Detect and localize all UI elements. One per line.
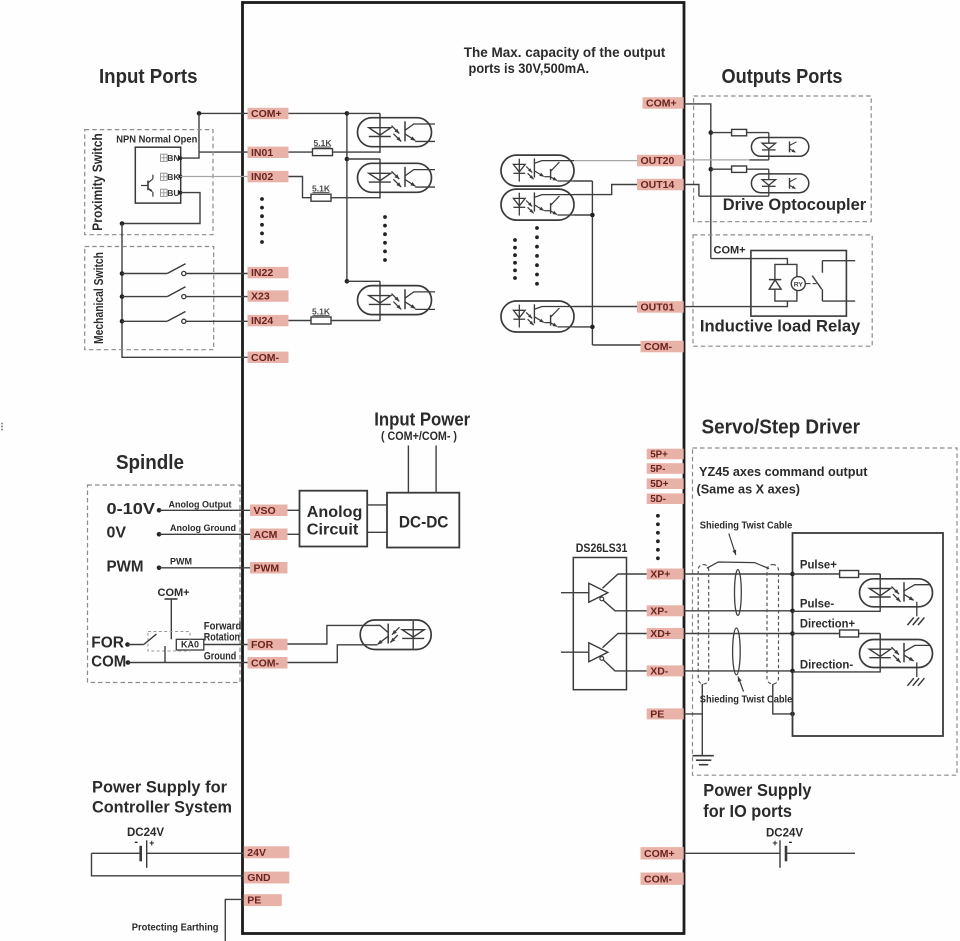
- wire Direction-: [793, 671, 881, 673]
- port FOR: [248, 639, 288, 651]
- wire R3 to opto3 cathode: [331, 320, 380, 322]
- ellipsis dots inputs: [260, 197, 264, 201]
- resistor RD1: [732, 129, 747, 135]
- mechanical switch dashed box: [85, 247, 214, 350]
- port XD+: [647, 628, 684, 639]
- pin BK: [178, 175, 182, 179]
- wire BU to common rail: [122, 193, 200, 224]
- wire IN01 to R1: [289, 151, 313, 153]
- svg-text:COM-: COM-: [644, 341, 672, 353]
- opto LED: [869, 649, 890, 656]
- wire common rail: [121, 224, 123, 359]
- port PWM: [250, 562, 288, 574]
- wire Direction+ to R5: [793, 633, 840, 635]
- svg-text:COM+: COM+: [158, 587, 190, 599]
- junction: [126, 660, 131, 665]
- mechanical switch: [120, 294, 125, 299]
- opto phototransistor: [903, 582, 905, 601]
- ellipsis dots outputs: [513, 238, 517, 242]
- wire shield2 to driver: [773, 684, 793, 714]
- svg-text:XD-: XD-: [650, 665, 669, 677]
- optocoupler body: [501, 301, 574, 332]
- svg-text:PWM: PWM: [254, 562, 280, 574]
- wire RD1 to LED: [747, 132, 769, 134]
- wire COM+ to KA0: [170, 599, 172, 639]
- svg-text:5P+: 5P+: [650, 449, 668, 460]
- svg-text:Ground: Ground: [204, 651, 237, 663]
- svg-text:Drive Optocoupler: Drive Optocoupler: [723, 195, 867, 214]
- wire VSO: [159, 509, 250, 511]
- relay contact: [821, 261, 823, 273]
- svg-text:IN02: IN02: [251, 171, 273, 183]
- svg-text:BK: BK: [167, 172, 180, 182]
- port IN02: [248, 171, 289, 182]
- svg-text:+: +: [772, 838, 777, 848]
- port VSO: [250, 505, 288, 517]
- wire rail to RD2: [711, 168, 732, 170]
- cable shield tube 1: [698, 565, 709, 685]
- wire opto4 collector to OUT20: [574, 160, 643, 162]
- earth ground PE: [693, 755, 714, 757]
- wire COM+ to battery: [684, 852, 780, 854]
- svg-text:COM+: COM+: [646, 98, 677, 110]
- switch FOR: [128, 644, 144, 646]
- svg-text:Anolog: Anolog: [307, 504, 363, 521]
- mechanical switch: [120, 271, 125, 276]
- scan artifact dots: [1, 423, 3, 425]
- svg-text:Power Supply: Power Supply: [703, 780, 811, 800]
- port ACM: [250, 529, 288, 541]
- wire FOR to opto collector: [288, 625, 381, 644]
- port X23: [248, 290, 289, 301]
- battery B1 DC24V: [139, 846, 142, 862]
- wire opto1 anode: [347, 112, 380, 114]
- opto phototransistor: [404, 289, 406, 309]
- wire COM- rail: [591, 181, 593, 345]
- wire RY to contact: [806, 283, 811, 285]
- relay box: [751, 251, 847, 317]
- proximity switch dashed box: [85, 130, 213, 235]
- port COM- out: [641, 341, 684, 353]
- NPN sensor box: [135, 147, 180, 203]
- wire ACM to Anolog Circuit: [288, 533, 300, 535]
- resistor R4: [840, 571, 859, 578]
- wire buffer A out+: [603, 574, 647, 588]
- opto LED: [369, 296, 391, 303]
- svg-text:DC24V: DC24V: [127, 827, 164, 839]
- port XP-: [647, 605, 684, 616]
- port 5D+: [647, 478, 684, 489]
- optocoupler body: [360, 620, 431, 650]
- wire opto4 emitter to COM- rail: [574, 180, 592, 182]
- port COM-: [248, 352, 289, 363]
- junction: [157, 508, 162, 513]
- transistor Q-NPN: [147, 181, 149, 191]
- wire LED2 cathode: [699, 195, 769, 197]
- svg-text:0V: 0V: [107, 525, 127, 542]
- wire buffer B out+: [603, 634, 647, 648]
- svg-text:YZ45 axes command output: YZ45 axes command output: [699, 464, 868, 479]
- opto light arrows: [392, 171, 400, 179]
- wire rail to COM-: [592, 344, 640, 346]
- junction: [345, 157, 350, 162]
- opto light arrows: [526, 201, 532, 207]
- svg-text:( COM+/COM- ): ( COM+/COM- ): [381, 431, 457, 443]
- svg-text:Power Supply for: Power Supply for: [92, 777, 227, 796]
- wire opto5 collector to OUT14: [574, 185, 643, 195]
- port OUT01: [637, 301, 684, 313]
- svg-text:PWM: PWM: [170, 557, 192, 567]
- wire IN02 to R2: [289, 177, 312, 198]
- wire RD2 to LED: [747, 168, 769, 170]
- wire PE: [684, 713, 703, 715]
- earth ground: [907, 678, 913, 686]
- svg-text:0-10V: 0-10V: [107, 501, 156, 518]
- port GND: [244, 872, 289, 884]
- shield roof: [707, 562, 769, 569]
- drive optocoupler dashed box: [694, 96, 872, 222]
- svg-text:IN22: IN22: [251, 267, 273, 279]
- opto LED: [869, 589, 890, 596]
- block Anolog Circuit: [300, 491, 368, 547]
- port COM+: [248, 108, 289, 119]
- svg-text:+: +: [149, 838, 154, 848]
- opto phototransistor: [404, 121, 406, 141]
- port 5P+: [647, 449, 684, 460]
- svg-text:24V: 24V: [247, 847, 266, 859]
- controller board outline: [243, 3, 685, 934]
- wire COM+ to rail: [289, 112, 347, 114]
- svg-text:Input Power: Input Power: [374, 410, 470, 430]
- svg-text:PE: PE: [247, 895, 261, 907]
- svg-text:PE: PE: [650, 708, 664, 720]
- svg-text:for IO ports: for IO ports: [703, 801, 792, 821]
- svg-text:X23: X23: [251, 291, 270, 303]
- junction: [197, 111, 202, 116]
- opto D1 phototransistor: [789, 142, 791, 153]
- wire opto6 emitter: [574, 326, 592, 328]
- ellipsis dots optos: [383, 215, 387, 219]
- wire contact terminal bottom: [822, 300, 855, 302]
- junction: [125, 642, 130, 647]
- svg-text:COM: COM: [91, 653, 126, 670]
- port PE bottom: [244, 894, 282, 906]
- svg-text:RY: RY: [794, 281, 804, 288]
- opto D1 drive LED: [751, 138, 808, 157]
- wire VSO to Anolog Circuit: [288, 509, 300, 511]
- wire contact terminal top: [822, 260, 855, 262]
- port OUT14: [637, 179, 684, 191]
- svg-text:Pulse-: Pulse-: [800, 596, 834, 610]
- resistor R5: [840, 630, 859, 637]
- svg-text:Shieding Twist Cable: Shieding Twist Cable: [700, 521, 793, 532]
- wire COM+ to external rail: [684, 104, 711, 259]
- earth ground: [907, 618, 913, 626]
- wire Pulse+ to R4: [793, 573, 840, 575]
- svg-text:COM-: COM-: [251, 657, 279, 669]
- svg-text:5D-: 5D-: [650, 494, 666, 505]
- wire COM+ vertical rail: [346, 113, 348, 281]
- pin BN: [178, 156, 182, 160]
- opto darlington pair: [533, 192, 535, 211]
- svg-text:Direction-: Direction-: [800, 658, 853, 672]
- svg-text:OUT20: OUT20: [641, 155, 675, 167]
- svg-text:IN24: IN24: [251, 315, 273, 327]
- svg-text:GND: GND: [247, 872, 271, 884]
- node COM+ wire: [199, 112, 248, 114]
- optocoupler body: [860, 640, 933, 668]
- port 5P-: [647, 463, 684, 474]
- port IN01: [248, 147, 289, 158]
- svg-text:DC-DC: DC-DC: [399, 514, 449, 532]
- junction: [120, 221, 125, 226]
- svg-text:PWM: PWM: [107, 559, 144, 576]
- opto phototransistor: [387, 624, 389, 644]
- resistor RD2: [732, 166, 747, 172]
- optocoupler body: [358, 163, 432, 192]
- buffer A: [561, 592, 589, 594]
- wire R5 to opto: [859, 633, 881, 635]
- wire input power +: [407, 446, 409, 493]
- svg-text:BU: BU: [167, 188, 179, 198]
- block DC-DC: [387, 493, 459, 548]
- wire XD- to driver: [684, 670, 793, 672]
- svg-text:Shieding Twist Cable: Shieding Twist Cable: [700, 695, 793, 706]
- svg-text:Direction+: Direction+: [800, 616, 855, 630]
- opto light arrows: [392, 627, 400, 635]
- optocoupler body: [860, 579, 933, 607]
- inductive load relay dashed box: [693, 235, 872, 346]
- svg-text:ports is 30V,500mA.: ports is 30V,500mA.: [469, 60, 590, 76]
- arrow to cable bottom: [738, 677, 744, 692]
- diode D flyback: [769, 279, 781, 281]
- svg-text:Servo/Step Driver: Servo/Step Driver: [702, 417, 861, 439]
- port PE: [647, 708, 684, 719]
- optocoupler body: [358, 118, 432, 147]
- opto darlington pair: [533, 304, 535, 323]
- wire rail to RD1: [711, 132, 732, 134]
- opto LED: [513, 310, 525, 318]
- buffer B: [561, 651, 589, 653]
- cable shield tube 2: [767, 565, 779, 685]
- svg-text:VSO: VSO: [254, 505, 276, 517]
- svg-text:FOR: FOR: [91, 635, 124, 652]
- port COM+ out: [643, 97, 684, 109]
- wire battery minus: [92, 852, 141, 854]
- port OUT20: [637, 155, 684, 167]
- junction: [790, 712, 795, 717]
- buffer A inverting out: [600, 597, 604, 601]
- opto light arrows: [526, 312, 532, 318]
- port COM- spindle: [248, 657, 288, 669]
- junction: [790, 669, 795, 674]
- junction: [709, 167, 714, 172]
- svg-text:COM+: COM+: [714, 245, 746, 257]
- svg-text:COM+: COM+: [644, 848, 675, 860]
- svg-text:Inductive load Relay: Inductive load Relay: [700, 317, 861, 336]
- wire ACM: [159, 533, 250, 535]
- wire XP- to driver: [684, 610, 793, 612]
- wire IN24 to R3: [289, 320, 312, 322]
- twisted pair ellipse 2: [733, 628, 741, 675]
- opto phototransistor: [404, 167, 406, 187]
- arrow to cable: [729, 534, 736, 556]
- relay coil RY: [791, 277, 805, 291]
- wire OUT01 to coil: [684, 301, 788, 307]
- wire COM- to rail: [122, 356, 248, 358]
- svg-text:DS26LS31: DS26LS31: [576, 543, 628, 555]
- opto LED: [513, 198, 525, 206]
- wire battery out: [786, 852, 855, 854]
- wire Anolog to DC-DC: [367, 504, 387, 506]
- wire opto6 collector to OUT01: [574, 306, 637, 308]
- junction: [790, 609, 795, 614]
- svg-text:-: -: [789, 836, 793, 848]
- wire OUT14 external: [684, 185, 699, 197]
- opto light arrows: [526, 167, 532, 173]
- spindle dashed box: [88, 485, 241, 683]
- optocoupler body: [501, 155, 574, 186]
- wire opto2 anode: [347, 158, 380, 160]
- svg-text:XP-: XP-: [650, 605, 668, 617]
- wire OUT20 external: [684, 159, 750, 161]
- opto phototransistor: [903, 643, 905, 662]
- wire battery plus to 24V: [147, 852, 244, 854]
- wire COM- to opto emitter: [288, 645, 378, 663]
- wire R4 to opto: [859, 573, 881, 575]
- resistor R1 5.1K: [313, 149, 333, 156]
- svg-text:(Same as X axes): (Same as X axes): [697, 482, 801, 497]
- servo driver dashed box: [693, 448, 958, 775]
- battery B2 DC24V: [779, 840, 781, 868]
- port XP+: [647, 569, 684, 580]
- opto D2 drive LED: [751, 174, 808, 193]
- dashed contact box: [148, 632, 190, 652]
- mechanical switch: [120, 319, 125, 324]
- wire KA0 to FOR port: [204, 644, 248, 646]
- junction: [790, 631, 795, 636]
- svg-text:Input Ports: Input Ports: [99, 66, 198, 88]
- svg-text:IN01: IN01: [251, 147, 273, 159]
- svg-text:Proximity Switch: Proximity Switch: [90, 133, 105, 231]
- wire LED1 cathode to OUT20: [749, 159, 768, 161]
- junction: [345, 111, 350, 116]
- svg-text:XD+: XD+: [650, 628, 671, 640]
- wire opto3 anode: [347, 280, 380, 282]
- svg-text:Pulse+: Pulse+: [800, 558, 837, 572]
- wire opto5 emitter: [574, 214, 592, 216]
- svg-text:Rotation: Rotation: [204, 631, 240, 643]
- wire PE earthing: [225, 899, 244, 941]
- svg-text:BN: BN: [167, 153, 179, 163]
- svg-text:Protecting Earthing: Protecting Earthing: [132, 922, 219, 934]
- ellipsis dots servo: [656, 514, 660, 518]
- svg-text:COM-: COM-: [644, 873, 672, 885]
- wire PWM: [159, 567, 250, 569]
- port XD-: [647, 665, 684, 676]
- opto light arrows: [891, 586, 899, 594]
- wire input power -: [435, 446, 437, 493]
- svg-text:NPN Normal Open: NPN Normal Open: [116, 134, 197, 145]
- wire R1 to opto1 cathode: [333, 151, 381, 153]
- junction: [709, 130, 714, 135]
- junction: [345, 279, 350, 284]
- svg-text:OUT01: OUT01: [641, 302, 675, 314]
- buffer B inverting out: [600, 657, 604, 661]
- svg-text:COM-: COM-: [251, 352, 279, 364]
- opto LED: [369, 128, 391, 135]
- wire: [198, 113, 200, 152]
- wire XD+ to driver: [684, 633, 793, 635]
- wire shield1 to PE: [701, 684, 703, 756]
- wire BN to COM+: [180, 153, 199, 158]
- opto light arrows: [392, 126, 400, 134]
- wire switch to COM: [164, 646, 166, 663]
- svg-text:Outputs Ports: Outputs Ports: [722, 66, 843, 88]
- svg-text:Circuit: Circuit: [307, 522, 359, 539]
- svg-text:The Max. capacity of the outpu: The Max. capacity of the output: [464, 44, 666, 60]
- port COM+ bottom: [641, 847, 684, 859]
- port 5D-: [647, 493, 684, 504]
- svg-text:Controller System: Controller System: [92, 798, 232, 817]
- relay KA0 box: [176, 639, 204, 650]
- resistor R2 5.1K: [311, 194, 331, 201]
- junction: [590, 213, 595, 218]
- relay coil loop: [775, 264, 788, 301]
- svg-text:OUT14: OUT14: [641, 179, 675, 191]
- wire COM to COM- port: [128, 662, 248, 664]
- svg-text:FOR: FOR: [251, 639, 274, 651]
- junction: [157, 532, 162, 537]
- svg-text:COM+: COM+: [251, 108, 282, 120]
- junction: [157, 566, 162, 571]
- svg-text:5P-: 5P-: [650, 464, 665, 475]
- opto LED: [369, 173, 391, 180]
- port IN22: [248, 267, 289, 278]
- opto D2 phototransistor: [789, 178, 791, 189]
- wire Pulse-: [793, 610, 881, 612]
- wire BK to IN02: [180, 176, 247, 178]
- port 24V: [244, 846, 289, 858]
- svg-text:XP+: XP+: [650, 569, 670, 581]
- wire XP+ to driver: [684, 573, 793, 575]
- opto LED: [402, 630, 424, 637]
- wire into LED: [879, 574, 881, 579]
- wire COM+ rail to coil: [711, 259, 788, 265]
- svg-text:5D+: 5D+: [650, 479, 669, 490]
- optocoupler body: [358, 286, 432, 315]
- svg-text:Spindle: Spindle: [116, 452, 184, 474]
- optocoupler body: [501, 189, 574, 220]
- svg-text:ACM: ACM: [254, 529, 278, 541]
- wire R2 to opto2 cathode: [331, 197, 380, 199]
- svg-text:Mechanical Switch: Mechanical Switch: [91, 252, 106, 344]
- svg-text:-: -: [134, 836, 138, 848]
- opto light arrows: [891, 647, 899, 655]
- twisted pair ellipse 1: [735, 570, 742, 616]
- driver box: [793, 533, 944, 736]
- port IN24: [248, 315, 289, 326]
- svg-text:Anolog Output: Anolog Output: [169, 500, 232, 510]
- junction: [790, 572, 795, 577]
- opto darlington pair: [533, 158, 535, 177]
- pin BU: [178, 191, 182, 195]
- opto LED: [513, 164, 525, 172]
- wire IN01 from sensor: [199, 151, 248, 153]
- wire to GND: [92, 853, 244, 876]
- opto light arrows: [392, 294, 400, 302]
- COM+ terminal: [165, 598, 178, 600]
